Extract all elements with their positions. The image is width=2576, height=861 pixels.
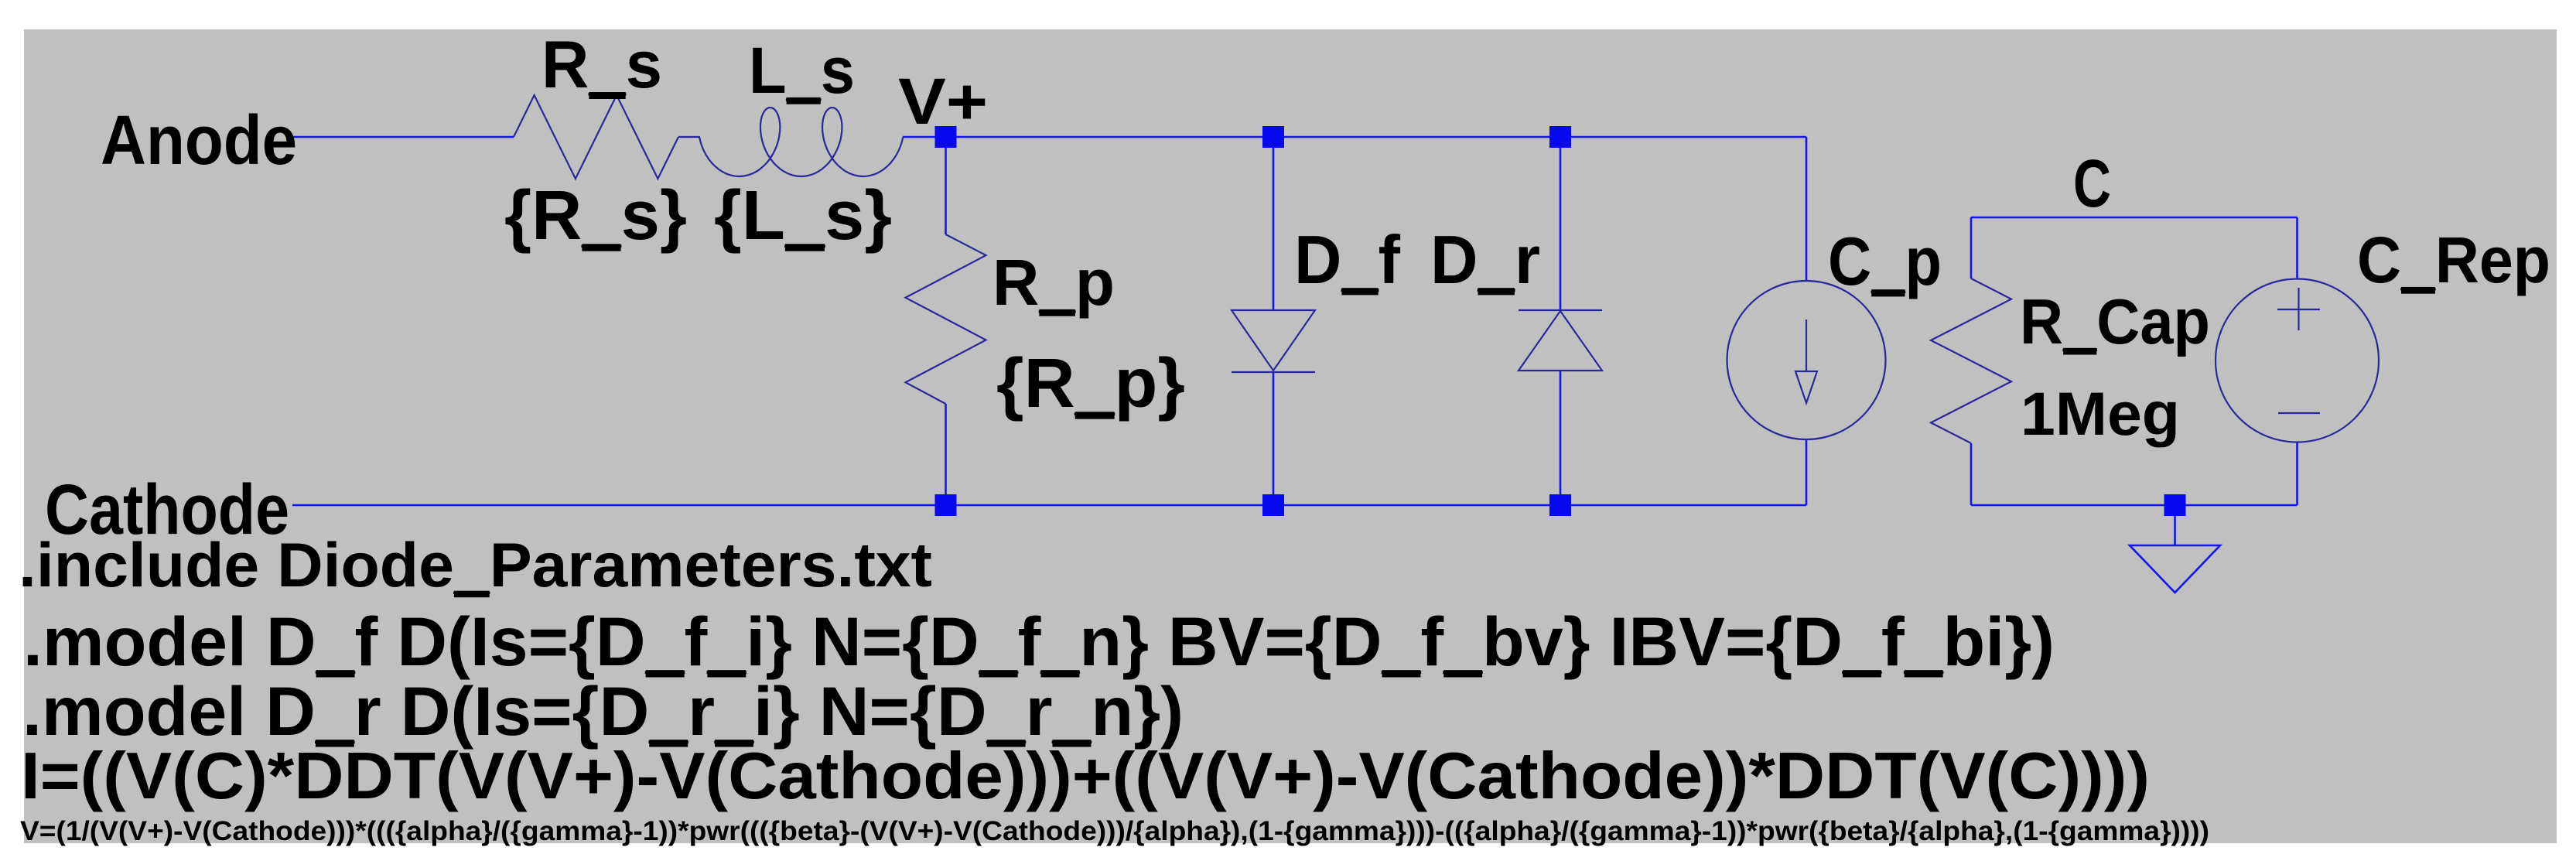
wire R_Cap top lead: [1970, 217, 1973, 278]
svg-text:L_s: L_s: [749, 34, 855, 107]
wire C_p bottom drop: [1806, 439, 1808, 505]
resistor R_Cap: [1931, 278, 2011, 443]
node ground junction: [2164, 494, 2186, 516]
node R_p bottom junction: [935, 494, 957, 516]
wire D_f top lead: [1273, 137, 1275, 310]
wire C subcircuit top: [1971, 217, 2298, 219]
svg-text:C: C: [2073, 146, 2111, 221]
diode D_r: [1519, 309, 1602, 311]
svg-text:{R_p}: {R_p}: [996, 345, 1185, 422]
wire ground stub: [2174, 505, 2176, 545]
svg-text:.include Diode_Parameters.txt: .include Diode_Parameters.txt: [19, 531, 932, 600]
svg-text:D_f: D_f: [1294, 221, 1401, 298]
node D_r bottom junction: [1549, 494, 1571, 516]
diode D_f: [1232, 310, 1315, 371]
resistor R_p: [906, 234, 986, 404]
ground: [2130, 545, 2220, 593]
svg-text:.model D_f D(Is={D_f_i} N={D_f: .model D_f D(Is={D_f_i} N={D_f_n} BV={D_…: [23, 603, 2055, 680]
svg-text:{L_s}: {L_s}: [714, 177, 892, 255]
node D_f bottom junction: [1262, 494, 1284, 516]
svg-text:{R_s}: {R_s}: [504, 177, 687, 255]
wire C_p top drop: [1806, 137, 1808, 282]
svg-text:R_p: R_p: [992, 246, 1115, 319]
resistor R_s: [514, 95, 678, 179]
svg-text:.model D_r D(Is={D_r_i} N={D_r: .model D_r D(Is={D_r_i} N={D_r_n}): [22, 672, 1184, 750]
node V+ junction: [935, 126, 957, 148]
svg-text:V+: V+: [898, 65, 988, 138]
wire D_r bottom lead: [1560, 371, 1562, 505]
svg-text:R_s: R_s: [542, 28, 662, 102]
svg-text:1Meg: 1Meg: [2021, 379, 2180, 448]
wire R_Cap bottom lead: [1970, 443, 1973, 505]
wire C_Rep top lead: [2296, 217, 2298, 279]
svg-text:Anode: Anode: [101, 102, 297, 179]
wire top rail: [903, 136, 1806, 138]
wire C_Rep bottom lead: [2296, 442, 2298, 505]
wire R_p top lead: [945, 137, 947, 234]
svg-text:C_Rep: C_Rep: [2357, 224, 2550, 296]
svg-text:R_Cap: R_Cap: [2020, 285, 2210, 357]
wire D_r top lead: [1560, 137, 1562, 310]
wire R_p bottom lead: [945, 404, 947, 505]
node D_r top junction: [1549, 126, 1571, 148]
voltage source C_Rep: [2216, 279, 2379, 442]
svg-text:D_r: D_r: [1430, 221, 1540, 298]
wire bottom rail Cathode: [292, 504, 1806, 507]
inductor L_s: [699, 108, 903, 176]
current source C_p: [1727, 281, 1886, 439]
svg-text:I=((V(C)*DDT(V(V+)-V(Cathode)): I=((V(C)*DDT(V(V+)-V(Cathode)))+((V(V+)-…: [21, 740, 2150, 813]
wire D_f bottom lead: [1273, 372, 1275, 505]
wire C subcircuit bottom: [1971, 504, 2298, 507]
wire Anode lead: [292, 136, 514, 138]
svg-text:C_p: C_p: [1828, 223, 1942, 299]
svg-text:V=(1/(V(V+)-V(Cathode)))*((({a: V=(1/(V(V+)-V(Cathode)))*((({alpha}/({ga…: [20, 816, 2209, 846]
node D_f top junction: [1262, 126, 1284, 148]
